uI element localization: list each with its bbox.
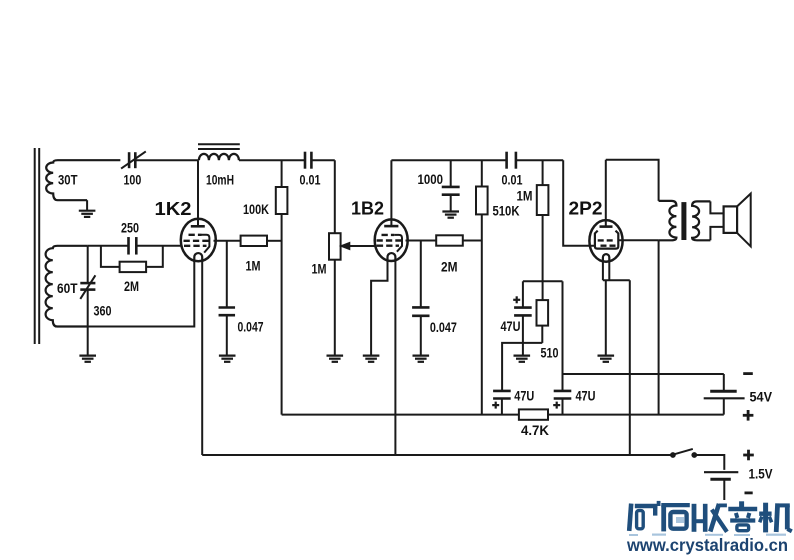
label 510K bbox=[493, 204, 520, 219]
variable capacitor 360 bbox=[80, 246, 95, 356]
battery 54V bbox=[704, 374, 745, 415]
label + 47U b bbox=[492, 402, 499, 409]
wire pot top bbox=[334, 160, 336, 233]
svg-text:1M: 1M bbox=[517, 189, 533, 204]
label 1.5V bbox=[749, 466, 773, 481]
wire pot wiper to 1B2 grid bbox=[375, 245, 377, 247]
label 2M a bbox=[124, 279, 139, 294]
label 47U c bbox=[576, 388, 596, 403]
capacitor 0.047 b bbox=[412, 241, 429, 356]
battery 1.5V bbox=[704, 472, 738, 500]
label 0.047 a bbox=[238, 320, 264, 335]
wire 2P2 g2 right bbox=[618, 239, 658, 241]
svg-text:10mH: 10mH bbox=[206, 172, 234, 187]
label 10mH bbox=[206, 172, 234, 187]
wire 2P2 filament right to heater rail bbox=[629, 280, 631, 455]
ground under 360 bbox=[79, 356, 96, 362]
capacitor 0.01 b bbox=[507, 152, 516, 169]
ground under 47U a bbox=[514, 356, 531, 362]
svg-text:1B2: 1B2 bbox=[351, 198, 384, 219]
label 1K2 bbox=[155, 198, 192, 219]
label 47U a bbox=[501, 319, 521, 334]
label 54V bbox=[750, 390, 773, 405]
label 1M pot bbox=[312, 262, 327, 277]
potentiometer 1M bbox=[329, 233, 375, 260]
wire top rail A bbox=[135, 159, 334, 161]
svg-text:47U: 47U bbox=[576, 388, 596, 403]
wire top rail C bbox=[606, 160, 659, 201]
svg-text:0.047: 0.047 bbox=[430, 320, 457, 335]
watermark characters bbox=[629, 501, 792, 536]
watermark url bbox=[626, 535, 788, 555]
wire 100K top bbox=[281, 160, 283, 187]
ground under 0.047 a bbox=[219, 356, 236, 362]
capacitor 47U a bbox=[514, 281, 532, 355]
speaker bbox=[724, 194, 751, 247]
wire 2M b to 510K line bbox=[463, 240, 482, 242]
svg-text:1M: 1M bbox=[246, 259, 261, 274]
capacitor 0.01 a bbox=[305, 152, 311, 169]
wire 30T to ground bbox=[86, 200, 88, 211]
svg-text:www.crystalradio.cn: www.crystalradio.cn bbox=[626, 535, 788, 555]
svg-text:47U: 47U bbox=[501, 319, 521, 334]
wire 1B2 g2 right bbox=[406, 240, 437, 242]
svg-text:1K2: 1K2 bbox=[155, 198, 192, 219]
ground under 1000 bbox=[442, 212, 459, 218]
label + 1.5V bbox=[743, 450, 754, 461]
wire 0.047a bottom bbox=[226, 315, 228, 355]
wire screen-primary down to B+ bbox=[658, 240, 660, 414]
variable capacitor 100 bbox=[121, 151, 146, 168]
wire bias rail bbox=[523, 280, 563, 282]
transformer T1 primary bbox=[659, 201, 677, 240]
wire 2P2 grid feed bbox=[563, 160, 595, 246]
label + 54V bbox=[743, 410, 754, 421]
wire heater rail bbox=[202, 454, 673, 456]
label 4.7K bbox=[521, 423, 549, 438]
resistor 1M a bbox=[241, 236, 267, 246]
wire 1K2 filament right leg bbox=[201, 261, 203, 455]
ground under 0.047 b bbox=[413, 356, 430, 362]
label 1000 bbox=[418, 172, 444, 187]
antenna ferrite rod bbox=[35, 148, 40, 344]
resistor 2M b bbox=[436, 235, 463, 245]
svg-text:0.01: 0.01 bbox=[502, 172, 523, 187]
transformer T1 secondary bbox=[692, 201, 724, 240]
label 60T bbox=[57, 281, 78, 296]
resistor 100K bbox=[276, 187, 288, 214]
svg-text:2P2: 2P2 bbox=[569, 197, 603, 218]
wire top rail B bbox=[391, 159, 563, 161]
svg-text:2M: 2M bbox=[441, 259, 458, 274]
ground under pot bbox=[327, 356, 344, 362]
label 0.01 b bbox=[502, 172, 523, 187]
transformer T1 core bbox=[681, 202, 686, 240]
label 1M b bbox=[517, 189, 533, 204]
ground under 2P2 filament bbox=[598, 356, 615, 362]
wire grid rail 1K2 bbox=[88, 245, 182, 247]
svg-text:54V: 54V bbox=[750, 390, 773, 405]
wire 1M b bottom bbox=[542, 215, 544, 281]
svg-text:100: 100 bbox=[124, 172, 142, 187]
label + 47U c bbox=[553, 402, 560, 409]
label 0.047 b bbox=[430, 320, 457, 335]
svg-text:100K: 100K bbox=[243, 202, 269, 217]
coil L1a 30T bbox=[46, 160, 120, 200]
capacitor 0.047 a bbox=[219, 308, 236, 316]
svg-text:2M: 2M bbox=[124, 279, 139, 294]
label 100 bbox=[124, 172, 142, 187]
svg-text:510K: 510K bbox=[493, 204, 520, 219]
svg-text:510: 510 bbox=[541, 346, 559, 361]
ground under 1B2 filament bbox=[363, 356, 380, 362]
svg-text:0.047: 0.047 bbox=[238, 320, 264, 335]
resistor 2M a bbox=[120, 262, 147, 272]
label 100K bbox=[243, 202, 269, 217]
label 1M a bbox=[246, 259, 261, 274]
resistor 4.7K bbox=[519, 409, 548, 419]
label 47U b bbox=[514, 388, 534, 403]
label + 47U a bbox=[513, 296, 520, 303]
resistor 510K bbox=[476, 160, 488, 214]
svg-text:4.7K: 4.7K bbox=[521, 423, 549, 438]
label 2P2 bbox=[569, 197, 603, 218]
svg-text:47U: 47U bbox=[514, 388, 534, 403]
label 2M b bbox=[441, 259, 458, 274]
wire B+ rail bbox=[282, 414, 724, 416]
capacitor 1000 bbox=[442, 160, 460, 211]
svg-text:1M: 1M bbox=[312, 262, 327, 277]
resistor 510 bbox=[537, 281, 549, 343]
wire switch to 1.5V battery bbox=[696, 455, 724, 470]
wire pot bottom bbox=[334, 260, 336, 356]
wire 1B2 filament left leg bbox=[371, 261, 387, 355]
label 1B2 bbox=[351, 198, 384, 219]
svg-text:250: 250 bbox=[121, 221, 139, 236]
capacitor 47U b bbox=[493, 391, 511, 415]
resistor 1M b bbox=[537, 160, 549, 215]
label - 54V bbox=[743, 372, 753, 375]
label 360 bbox=[94, 304, 112, 319]
label 0.01 a bbox=[300, 172, 321, 187]
capacitor 47U c bbox=[554, 391, 572, 415]
wire 1B2 filament right leg bbox=[394, 261, 396, 455]
tube U3 2P2 bbox=[589, 160, 622, 262]
svg-text:1.5V: 1.5V bbox=[749, 466, 773, 481]
switch S1 bbox=[671, 449, 697, 457]
tube U1 1K2 bbox=[181, 160, 216, 262]
wire 0.047a top bbox=[226, 241, 228, 308]
svg-text:360: 360 bbox=[94, 304, 112, 319]
label 510 bbox=[541, 346, 559, 361]
ground under 30T bbox=[79, 211, 96, 217]
wire 1K2 filament left leg bbox=[55, 261, 194, 327]
coil L1b 60T bbox=[46, 246, 88, 327]
capacitor 250 bbox=[129, 237, 137, 255]
wire 1K2 g2 to node bbox=[214, 240, 241, 242]
wire 1M a to 100K node bbox=[267, 240, 282, 242]
wire 2P2 filament legs bbox=[603, 261, 630, 355]
wire node B bbox=[502, 343, 542, 391]
svg-text:1000: 1000 bbox=[418, 172, 444, 187]
wire 2M loop bbox=[101, 246, 163, 267]
svg-text:60T: 60T bbox=[57, 281, 78, 296]
choke 10mH bbox=[198, 144, 240, 160]
wire 510K bottom to B+ rail bbox=[481, 214, 483, 414]
label 30T bbox=[58, 172, 78, 187]
label - 1.5V bbox=[745, 491, 753, 494]
tube U2 1B2 bbox=[375, 160, 408, 262]
wire 100K bottom to B+ rail bbox=[281, 214, 283, 415]
wire node A down bbox=[562, 281, 564, 391]
wire B- rail bbox=[563, 373, 724, 375]
svg-text:30T: 30T bbox=[58, 172, 78, 187]
label 250 bbox=[121, 221, 139, 236]
svg-text:0.01: 0.01 bbox=[300, 172, 321, 187]
